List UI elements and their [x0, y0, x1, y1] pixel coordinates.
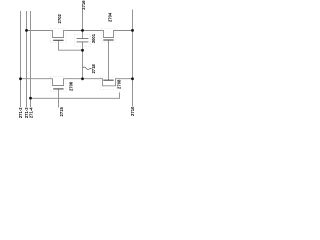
wire 2713 (left vertical line 2): [26, 11, 28, 107]
svg-text:271-4: 271-4: [28, 107, 33, 118]
svg-text:2710: 2710: [130, 106, 135, 116]
leader squiggle for 2718: [83, 67, 92, 70]
svg-text:2715: 2715: [59, 106, 64, 116]
wire capacitor branch top: [82, 31, 84, 39]
node dot storage node: [81, 49, 84, 52]
node dot H3 x VR: [131, 77, 134, 80]
dashed box Q2708: [100, 77, 117, 90]
svg-text:2702: 2702: [57, 13, 62, 23]
transistor Q2706 gate bar: [53, 88, 63, 90]
node dot H3 x VL1: [19, 77, 22, 80]
transistor Q2702 gate bar: [53, 39, 63, 41]
node dot H1 x VL2: [25, 29, 28, 32]
node dot H4 x VL3: [29, 97, 32, 100]
wire H4 bottom rail with up-stub: [31, 92, 120, 98]
svg-text:2716: 2716: [81, 0, 86, 10]
wire storage node 2718 (cap bottom to H3): [82, 42, 84, 79]
wire H1 top rail with channel dips of Q2702 and Q2704: [27, 31, 133, 38]
svg-text:2718: 2718: [91, 64, 96, 74]
svg-text:3001: 3001: [91, 33, 96, 43]
dashed box Q2702: [50, 28, 66, 42]
dashed box Q2704: [101, 28, 115, 42]
dashed box Q2706: [50, 77, 66, 92]
svg-text:2708: 2708: [116, 79, 121, 89]
wire H3 lower rail with channel dips of Q2706 and Q2708: [21, 79, 133, 86]
node dot H1 x cap branch: [81, 29, 84, 32]
wire 2714 (left vertical line 3): [30, 11, 32, 107]
capacitor C3001 plates: [77, 39, 89, 42]
svg-text:271-2: 271-2: [18, 107, 23, 118]
svg-text:2706: 2706: [69, 81, 74, 91]
transistor Q2708 gate bar: [103, 79, 113, 81]
wire 2712 (left vertical line 1): [20, 11, 22, 107]
wire gate link Q2704 to Q2708: [108, 40, 110, 80]
node dot H1 x VR: [131, 29, 134, 32]
node dot H3 x cap branch: [81, 77, 84, 80]
dashed box C3001: [74, 35, 90, 47]
wire gate of Q2702 to node: [59, 40, 83, 50]
transistor Q2704 gate bar: [103, 39, 113, 41]
wire 2716 leader: [82, 10, 84, 31]
wire 2710 (right vertical line): [132, 10, 134, 107]
svg-text:2704: 2704: [108, 12, 113, 22]
wire gate of Q2706 down through H4: [58, 89, 60, 108]
